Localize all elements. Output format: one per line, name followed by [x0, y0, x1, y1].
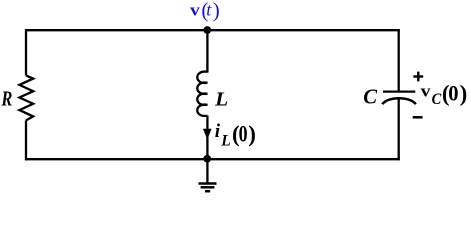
label vC(0)	[421, 80, 468, 107]
inductor L coil	[197, 72, 207, 116]
capacitor C top plate	[383, 90, 415, 92]
svg-text:): )	[248, 122, 256, 147]
svg-text:): )	[213, 0, 220, 22]
svg-text:R: R	[1, 86, 13, 110]
svg-text:): )	[460, 81, 468, 106]
label v(t) blue node name	[190, 0, 220, 22]
svg-text:i: i	[215, 121, 221, 142]
node v(t) junction dot	[203, 26, 211, 34]
wire middle upper segment	[206, 30, 208, 72]
svg-text:0: 0	[448, 80, 458, 105]
resistor R	[19, 75, 33, 120]
svg-text:0: 0	[239, 122, 248, 147]
svg-text:v: v	[190, 1, 201, 20]
svg-text:C: C	[432, 91, 442, 108]
svg-text:v: v	[421, 82, 431, 101]
node bottom junction dot	[203, 155, 211, 163]
ground symbol	[199, 184, 217, 192]
svg-text:t: t	[206, 0, 212, 20]
wire middle lower segment	[206, 116, 208, 160]
ground stub wire	[206, 159, 208, 183]
capacitor minus sign	[413, 116, 423, 119]
capacitor plus sign	[413, 72, 423, 82]
wire left upper segment	[25, 29, 27, 75]
svg-text:L: L	[214, 88, 228, 110]
wire bottom horizontal	[25, 158, 400, 160]
svg-text:C: C	[363, 84, 378, 108]
inductor current arrowhead iL(0)	[203, 129, 212, 140]
capacitor C curved plate	[382, 98, 416, 104]
wire right upper segment	[398, 29, 400, 91]
wire left lower segment	[25, 120, 27, 160]
label iL(0)	[215, 121, 256, 149]
svg-text:L: L	[220, 132, 231, 149]
wire top horizontal	[25, 29, 400, 31]
wire right lower segment	[398, 100, 400, 161]
